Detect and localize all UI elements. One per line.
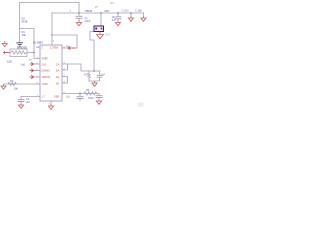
svg-text:4u7: 4u7 bbox=[112, 18, 117, 22]
svg-text:C10: C10 bbox=[7, 60, 12, 64]
svg-text:C2: C2 bbox=[36, 45, 40, 49]
svg-text:DR7: DR7 bbox=[105, 9, 111, 13]
svg-text:10uF: 10uF bbox=[85, 19, 91, 23]
svg-text:C 10n: C 10n bbox=[135, 9, 142, 13]
svg-text:8: 8 bbox=[53, 41, 55, 43]
svg-text:4148: 4148 bbox=[22, 20, 28, 24]
svg-text:C7: C7 bbox=[111, 1, 115, 5]
svg-text:2,IN: 2,IN bbox=[42, 64, 47, 67]
svg-text:C 10n: C 10n bbox=[122, 9, 129, 13]
svg-text:R4: R4 bbox=[86, 88, 90, 92]
svg-text:VFB/OS: VFB/OS bbox=[42, 76, 51, 79]
svg-text:SBUR: SBUR bbox=[85, 9, 92, 13]
svg-text:OUT: OUT bbox=[105, 34, 111, 37]
svg-text:7: 7 bbox=[70, 9, 72, 13]
svg-text:100n: 100n bbox=[88, 96, 94, 100]
svg-text:1k2: 1k2 bbox=[66, 95, 71, 98]
svg-text:10k: 10k bbox=[22, 33, 27, 37]
svg-text:4u7: 4u7 bbox=[26, 100, 31, 104]
svg-text:4k7: 4k7 bbox=[84, 74, 89, 77]
svg-text:U1 3842: U1 3842 bbox=[33, 41, 43, 45]
svg-text:SA: SA bbox=[56, 76, 60, 79]
svg-text:1n: 1n bbox=[29, 58, 32, 62]
svg-text:GND: GND bbox=[54, 96, 60, 99]
svg-text:5: 5 bbox=[49, 104, 51, 106]
svg-text:BRIDGE: BRIDGE bbox=[17, 46, 27, 50]
svg-text:TCAP: TCAP bbox=[42, 83, 49, 86]
svg-text:1n5: 1n5 bbox=[21, 63, 26, 67]
svg-text:R2: R2 bbox=[10, 79, 14, 83]
svg-text:1uF: 1uF bbox=[101, 74, 106, 77]
svg-text:1,STBA: 1,STBA bbox=[50, 47, 59, 50]
svg-text:10k: 10k bbox=[14, 87, 19, 91]
svg-text:VREF: VREF bbox=[42, 58, 49, 61]
svg-text:J7: J7 bbox=[95, 5, 98, 9]
svg-text:DIS/BO: DIS/BO bbox=[42, 70, 50, 73]
svg-text:CA: CA bbox=[56, 64, 60, 67]
svg-text:EA: EA bbox=[56, 70, 60, 73]
